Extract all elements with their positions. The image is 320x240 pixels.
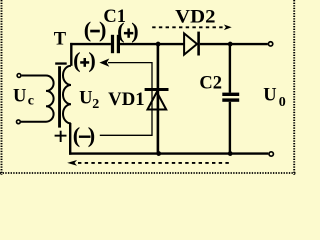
svg-text:(: ( (73, 122, 80, 147)
svg-text:): ) (88, 48, 95, 73)
junction dot bottom VD1 (156, 151, 161, 156)
wire: bottom rail (69, 152, 268, 154)
border left dotted (1, 0, 3, 175)
svg-text:VD1: VD1 (108, 90, 145, 110)
dashed arrow top (VD2 current) (152, 26, 224, 28)
border bottom dotted (0, 172, 296, 174)
polarity (-) secondary bottom (73, 122, 95, 147)
terminal primary top (17, 74, 21, 78)
terminal output top (268, 42, 272, 46)
svg-text:C2: C2 (199, 73, 222, 93)
svg-text:): ) (88, 122, 95, 147)
svg-text:U: U (79, 89, 92, 109)
terminal primary bottom (17, 120, 21, 124)
polarity (+) secondary top (73, 48, 96, 73)
polarity minus at secondary top (55, 62, 66, 64)
transformer core (58, 66, 61, 127)
junction dot top VD1 (156, 42, 161, 47)
polarity plus at secondary bottom (55, 131, 67, 142)
capacitor C2 plates (222, 93, 239, 96)
svg-text:VD2: VD2 (175, 8, 215, 28)
diode VD2 (184, 33, 197, 54)
svg-text:(: ( (117, 18, 124, 43)
diode VD1 (148, 92, 167, 110)
svg-text:(: ( (84, 17, 91, 42)
svg-text:c: c (28, 94, 34, 109)
svg-text:): ) (131, 18, 138, 43)
wire: secondary top vertical (70, 43, 72, 66)
svg-text:U: U (263, 85, 276, 105)
transformer T primary winding (21, 76, 54, 122)
junction dot bottom C2 (228, 151, 233, 156)
wire: VD1 branch vertical (157, 44, 160, 154)
wire: secondary bottom vertical (69, 123, 71, 155)
wire: top rail VD2 to output terminal (200, 43, 268, 45)
svg-text:(: ( (73, 48, 80, 73)
transformer secondary winding (63, 66, 71, 124)
svg-text:U: U (13, 87, 26, 107)
capacitor C1 plates (111, 35, 114, 53)
border right dotted (293, 0, 295, 175)
svg-text:): ) (99, 17, 106, 42)
junction dot top C2 (228, 42, 233, 47)
wire: C2 branch upper (229, 44, 231, 93)
wire: C2 branch lower (229, 102, 231, 154)
annotation bracket solid: top shaft with left arrowhead (100, 63, 152, 136)
polarity (-) above C1 (84, 17, 107, 42)
svg-text:0: 0 (279, 95, 286, 110)
svg-text:T: T (54, 30, 67, 50)
terminal output bottom (269, 152, 273, 156)
dashed arrow bottom (78, 162, 232, 164)
wire: top rail C1 right plate to VD2 (120, 43, 184, 45)
svg-text:2: 2 (92, 97, 99, 112)
wire: top rail from transformer corner to C1 left plate (70, 43, 111, 45)
polarity (+) above C1 (117, 18, 139, 43)
